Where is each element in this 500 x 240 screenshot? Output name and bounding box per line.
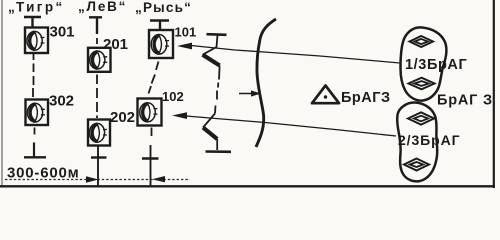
svg-text:101: 101 [175,25,197,40]
dashed wire 101-102 [149,62,159,94]
antenna T mast Тигр [24,17,41,28]
svg-text:302: 302 [49,93,74,110]
observation post triangle [312,86,339,104]
position area 1/3 BrAG (upper bean) [401,27,447,100]
measure arrowhead left [86,176,99,182]
wire from 1/3 BrAG to radio 101 [191,46,400,64]
distance measure line [5,179,190,181]
svg-text:102: 102 [162,89,184,104]
front line symbol upper [203,34,227,87]
dashed wire 301-302 [32,54,35,98]
artillery battery diamond 4 [404,159,429,171]
ground mast Тигр [24,128,46,158]
svg-text:„ЛеВ“: „ЛеВ“ [78,0,127,14]
radio station 202 [88,120,110,146]
svg-text:1/3БрАГ: 1/3БрАГ [405,57,467,73]
svg-text:„Тигр“: „Тигр“ [8,0,65,15]
enemy front line curve [256,19,276,147]
artillery battery diamond 2 [409,78,435,90]
antenna T mast Рысь [150,21,169,31]
front line symbol lower [203,91,231,152]
svg-text:301: 301 [50,24,75,41]
ground mast Рысь [142,128,159,188]
wire from 2/3 BrAG to radio 102 [186,116,396,136]
small arrow at curve [239,93,252,95]
dashed wire 201-202 [96,75,98,119]
ground mast Лев [91,146,107,187]
svg-text:„Рысь“: „Рысь“ [135,0,192,15]
measure arrowhead right [152,176,165,182]
radio station 102 [138,99,162,126]
radio station 301 [25,28,48,54]
antenna T mast Лев [89,17,102,44]
artillery battery diamond 1 [410,36,434,47]
radio station 302 [26,100,49,126]
svg-text:БрАГЗ: БрАГЗ [341,90,391,106]
svg-text:БрАГ З: БрАГ З [437,93,493,109]
arrowhead into 101 [177,43,192,50]
arrowhead into 102 [172,112,187,119]
radio station 101 [149,30,173,58]
artillery battery diamond 3 [408,112,434,124]
svg-text:201: 201 [103,36,128,53]
radio station 201 [88,48,111,72]
svg-text:2/3БрАГ: 2/3БрАГ [398,132,460,148]
svg-text:202: 202 [110,109,135,126]
position area 2/3 BrAG (lower bean) [397,102,437,181]
